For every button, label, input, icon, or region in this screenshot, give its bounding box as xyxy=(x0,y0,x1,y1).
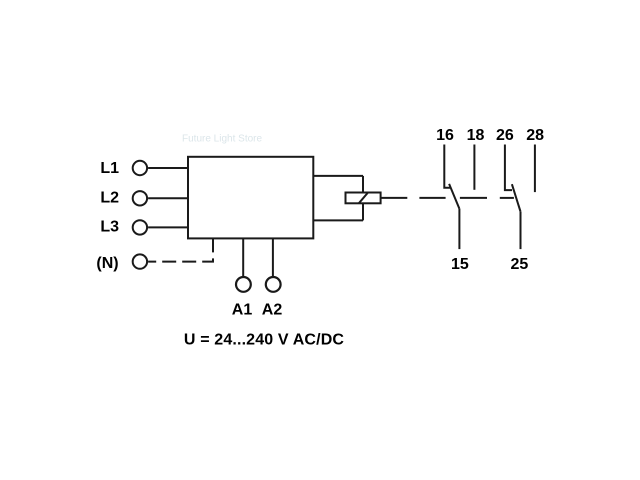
svg-text:15: 15 xyxy=(451,256,469,273)
svg-text:A1: A1 xyxy=(232,301,253,318)
wire coil lead xyxy=(381,197,408,199)
terminal A1 circle xyxy=(236,277,251,292)
terminal A2 circle xyxy=(266,277,281,292)
svg-text:L3: L3 xyxy=(100,218,119,235)
wire L3 xyxy=(148,226,188,228)
terminal L3 circle xyxy=(133,220,147,234)
svg-text:(N): (N) xyxy=(96,255,118,272)
terminal L1 circle xyxy=(133,161,147,175)
svg-text:Future Light Store: Future Light Store xyxy=(182,134,262,145)
contact blade 15-16 xyxy=(449,184,459,209)
wire A1 stub xyxy=(242,238,244,277)
svg-text:L1: L1 xyxy=(100,160,119,177)
changeover contact 1 xyxy=(444,145,474,250)
svg-text:28: 28 xyxy=(526,127,544,144)
svg-text:25: 25 xyxy=(511,256,529,273)
wire coil bracket vertical xyxy=(362,176,364,221)
svg-text:L2: L2 xyxy=(100,190,119,207)
changeover contact 2 xyxy=(505,145,535,250)
wire 25 xyxy=(520,212,522,250)
wire L2 xyxy=(148,197,188,199)
svg-text:26: 26 xyxy=(496,127,514,144)
relay coil K1 xyxy=(346,193,381,204)
terminal (N) circle xyxy=(133,254,147,268)
dashed mechanical link xyxy=(419,197,514,199)
wire A2 stub xyxy=(272,238,274,277)
wire 26 xyxy=(505,145,512,191)
wire 16 xyxy=(444,145,450,188)
relay module body xyxy=(188,157,313,239)
wire coil bracket bottom xyxy=(313,219,363,221)
svg-text:U = 24...240 V AC/DC: U = 24...240 V AC/DC xyxy=(184,332,345,349)
contact blade 25-26 xyxy=(512,184,521,211)
wire L1 xyxy=(148,167,188,169)
dashed wire (N) xyxy=(148,238,213,261)
terminal L2 circle xyxy=(133,191,147,205)
svg-text:16: 16 xyxy=(436,127,454,144)
svg-text:A2: A2 xyxy=(262,301,283,318)
wire 28 xyxy=(534,145,536,193)
svg-text:18: 18 xyxy=(467,127,485,144)
wire 15 xyxy=(458,209,460,249)
wire coil bracket top xyxy=(313,175,363,177)
wire 18 xyxy=(473,145,475,190)
